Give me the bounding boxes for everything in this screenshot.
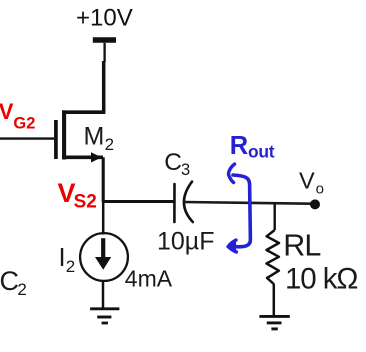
svg-text:4mA: 4mA <box>125 266 173 292</box>
svg-text:o: o <box>316 181 324 198</box>
svg-text:3: 3 <box>181 161 190 179</box>
label C2 <box>0 266 27 299</box>
svg-text:M: M <box>84 123 105 151</box>
wire source to VS2 node <box>102 157 105 202</box>
label I2 <box>59 244 76 276</box>
wire C3 to Vo <box>184 202 311 204</box>
Rout curved arrow <box>228 164 250 252</box>
svg-text:S2: S2 <box>74 192 97 213</box>
label VS2 <box>58 178 97 213</box>
svg-text:2: 2 <box>105 135 114 154</box>
svg-text:C: C <box>164 149 182 176</box>
wire Vo node to RL <box>274 203 276 230</box>
svg-text:R: R <box>230 132 248 160</box>
wire drain vertical <box>102 61 106 112</box>
label 10uF <box>157 227 214 255</box>
label Vo <box>299 167 324 197</box>
resistor RL <box>267 230 280 316</box>
svg-text:V: V <box>0 99 14 124</box>
ground left <box>90 309 119 323</box>
wire VS2 node to C3 <box>102 200 174 203</box>
label C3 <box>164 149 190 179</box>
label Rout <box>230 132 275 162</box>
svg-text:G2: G2 <box>13 114 35 132</box>
label VG2 <box>0 99 35 132</box>
VDD supply bar <box>93 37 116 43</box>
wire VS2 node to I2 <box>102 201 105 235</box>
svg-text:2: 2 <box>17 280 26 299</box>
svg-text:+10V: +10V <box>76 5 133 32</box>
label RL <box>283 228 320 262</box>
label 10 kOhm <box>285 262 357 295</box>
svg-text:out: out <box>248 142 275 162</box>
svg-text:V: V <box>299 167 315 193</box>
transistor M2 <box>56 110 103 162</box>
wire I2 to ground <box>102 281 105 309</box>
capacitor C3 <box>174 182 192 222</box>
svg-text:C: C <box>0 266 19 296</box>
svg-text:10µF: 10µF <box>157 227 214 255</box>
node Vo dot <box>310 199 320 209</box>
ground right <box>259 316 289 329</box>
wire supply lead <box>103 43 105 62</box>
wire gate <box>0 137 54 139</box>
label M2 <box>84 123 115 154</box>
svg-text:I: I <box>59 244 66 272</box>
svg-text:RL: RL <box>283 228 320 262</box>
label 4mA <box>125 266 173 292</box>
svg-text:10 kΩ: 10 kΩ <box>285 262 357 295</box>
current source I2 <box>80 233 128 281</box>
label +10V supply <box>76 5 133 32</box>
svg-text:2: 2 <box>66 257 75 276</box>
wire drain horizontal <box>62 110 105 114</box>
